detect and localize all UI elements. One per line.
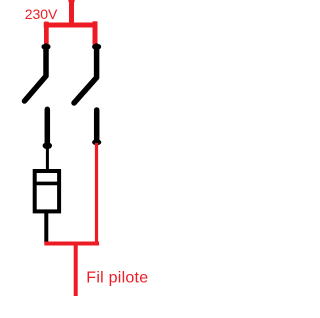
svg-text:Fil pilote: Fil pilote <box>86 270 148 287</box>
wire fil pilote output (red vertical) <box>74 245 78 296</box>
junction dot S1 top terminal <box>42 44 51 49</box>
wire right branch drop (red) <box>93 21 98 23</box>
svg-text:230V: 230V <box>25 6 58 22</box>
wire junction to diode (thin black) <box>46 146 49 170</box>
switch S1 (left, open) <box>25 46 47 101</box>
diode D1 cathode band <box>33 182 61 186</box>
wire right branch lower (thin red) <box>95 143 98 243</box>
wire S2 bottom terminal (black) <box>94 110 100 140</box>
junction dot S2 top terminal <box>92 44 101 49</box>
diode D1 body <box>35 171 59 211</box>
wire bottom bus (horizontal red) <box>44 242 99 246</box>
wire mains feed (top vertical red) <box>69 0 74 24</box>
wire diode to bottom corner (black) <box>44 213 48 243</box>
wire top bus (horizontal red) <box>44 23 98 28</box>
switch S2 (right, open) <box>74 46 97 103</box>
junction dot S2 bottom <box>92 139 101 145</box>
wire S1 bottom terminal (black) <box>45 109 51 144</box>
junction dot above diode <box>43 142 52 149</box>
wire left branch drop (red) <box>44 22 49 23</box>
